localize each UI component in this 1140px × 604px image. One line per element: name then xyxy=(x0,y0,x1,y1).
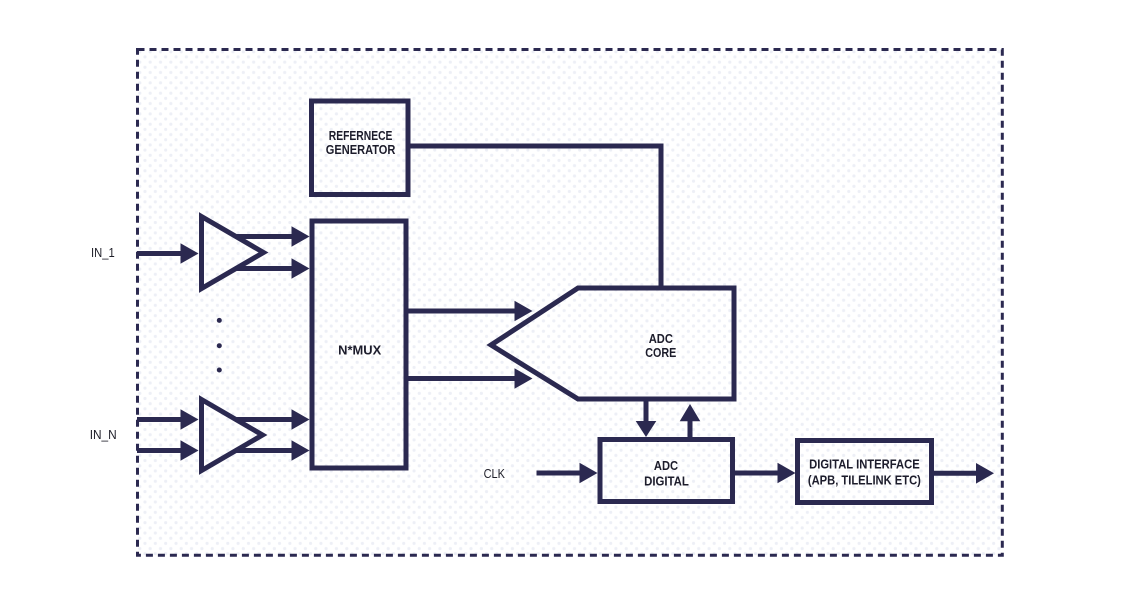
svg-text:GENERATOR: GENERATOR xyxy=(326,143,396,157)
svg-text:ADC: ADC xyxy=(649,332,673,346)
adc core pentagon U-CORE xyxy=(491,288,734,399)
amplifier buffer A1 (top) xyxy=(202,217,264,289)
arrow mux upper out to adc core xyxy=(408,301,533,322)
wire refgen to adc core xyxy=(408,146,661,290)
svg-text:CLK: CLK xyxy=(484,466,506,481)
svg-text:IN_N: IN_N xyxy=(90,427,117,442)
arrow IN_1 to buffer A1 xyxy=(137,243,199,264)
svg-text:IN_1: IN_1 xyxy=(91,245,115,260)
arrow IN_N lower to buffer A2 xyxy=(137,440,199,461)
arrow adc digital to digital interface xyxy=(733,463,796,484)
svg-text:DIGITAL INTERFACE: DIGITAL INTERFACE xyxy=(809,458,920,472)
svg-text:REFERNECE: REFERNECE xyxy=(329,129,393,143)
arrow mux lower out to adc core xyxy=(408,368,533,389)
dotted canvas background xyxy=(138,50,1003,556)
ellipsis dots between buffers xyxy=(217,318,222,323)
svg-text:(APB, TILELINK ETC): (APB, TILELINK ETC) xyxy=(808,474,921,488)
svg-text:CORE: CORE xyxy=(645,346,676,360)
arrow adc digital up to adc core xyxy=(680,404,701,437)
dashed frame border xyxy=(138,50,1003,556)
svg-text:ADC: ADC xyxy=(654,459,678,473)
arrow buffer A2 upper out to mux xyxy=(235,409,310,430)
digital interface box U-IF xyxy=(798,441,932,503)
arrow buffer A1 lower out to mux xyxy=(235,258,310,279)
reference generator box U-REF xyxy=(312,101,409,195)
mux box N*MUX xyxy=(312,221,406,468)
amplifier buffer A2 (bottom) xyxy=(202,400,263,471)
arrow IN_N upper to buffer A2 xyxy=(137,409,199,430)
adc digital box U-DIG xyxy=(600,440,733,502)
svg-text:DIGITAL: DIGITAL xyxy=(644,474,689,488)
arrow buffer A2 lower out to mux xyxy=(235,440,310,461)
arrow adc core down to adc digital xyxy=(636,399,657,437)
svg-text:N*MUX: N*MUX xyxy=(338,344,382,358)
arrow CLK to adc digital xyxy=(537,463,598,484)
arrow digital interface out xyxy=(932,463,994,484)
arrow buffer A1 upper out to mux xyxy=(235,226,310,247)
